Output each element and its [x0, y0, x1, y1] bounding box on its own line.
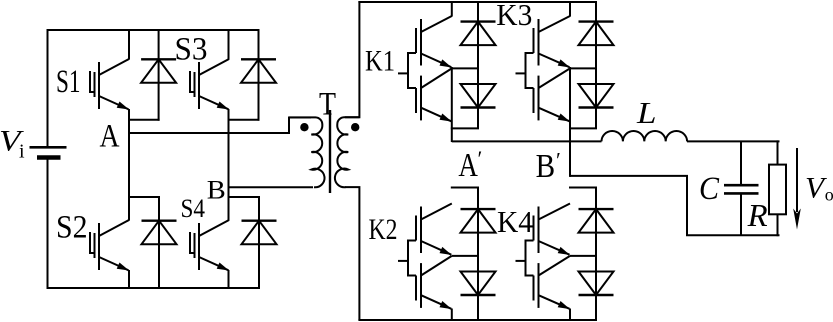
inductor L: [602, 131, 688, 141]
igbt S2: [90, 232, 95, 253]
wire: K1 midnode to diodes: [452, 67, 478, 69]
wire: K2 diode column: [477, 188, 479, 322]
wire: K2 emitter to bottom rail: [451, 309, 453, 322]
wire: K3 diode column: [595, 1, 597, 128]
K3 upper freewheel diode: [579, 20, 614, 22]
svg-text:B: B: [536, 148, 556, 185]
wire: secondary bottom rail: [358, 319, 596, 321]
wire: secondary top lead: [345, 1, 359, 117]
wire: K4 midnode to diodes: [570, 255, 596, 257]
wire: K1 lower emitter: [421, 108, 451, 122]
svg-text:K4: K4: [497, 204, 533, 239]
output voltage arrow Vo: [796, 148, 798, 212]
svg-text:R: R: [747, 197, 768, 233]
wire: S4 emitter to bottom rail: [228, 270, 230, 289]
wire: secondary bottom lead: [345, 187, 359, 320]
K3 gate bracket and lead: [526, 53, 534, 88]
wire: S3 emitter / node B leg: [228, 109, 230, 221]
K2 gate bracket and lead: [408, 241, 416, 276]
wire: K1 leg vertical: [451, 67, 453, 142]
K1 lower IGBT bar: [420, 76, 422, 121]
wire: left vertical to battery +: [47, 29, 49, 146]
wire: K1 upper emitter: [421, 54, 451, 68]
wire: K3 collector to top rail: [569, 1, 571, 17]
wire: K4 upper emitter: [539, 241, 570, 255]
wire: K1 diode column: [477, 1, 479, 128]
svg-text:′: ′: [556, 148, 561, 173]
K1 lower series diode: [461, 106, 496, 108]
svg-text:o: o: [825, 184, 833, 204]
svg-text:K1: K1: [365, 44, 395, 77]
K4 upper IGBT bar: [538, 207, 540, 254]
polarity dot primary: [300, 123, 308, 131]
wire: K4 diode column: [595, 188, 597, 322]
K4 gate bracket and lead: [526, 241, 534, 276]
wire: K3 collector diagonal: [539, 16, 571, 32]
svg-text:S2: S2: [56, 210, 88, 246]
K3 lower IGBT bar: [538, 76, 540, 121]
wire: K2 lower emitter: [421, 295, 451, 309]
wire: node A leg to S2 diode: [128, 196, 160, 198]
wire: K2 lower collector diagonal: [421, 256, 452, 276]
wire: K3 upper emitter: [539, 54, 570, 68]
antiparallel diode of S1: [158, 29, 160, 121]
wire: K2 midnode to diodes: [452, 255, 478, 257]
wire: S3 emitter to diode: [228, 119, 260, 121]
wire: secondary top rail: [358, 1, 596, 3]
wire: primary top rail: [48, 29, 259, 31]
wire: K2 leg to diode column jog: [451, 187, 479, 189]
svg-text:A: A: [100, 118, 120, 154]
capacitor C: [740, 141, 742, 185]
svg-text:S3: S3: [175, 32, 208, 68]
node B wire to transformer: [229, 186, 314, 188]
svg-text:K3: K3: [496, 0, 532, 32]
svg-text:K2: K2: [369, 213, 398, 246]
svg-text:T: T: [319, 87, 336, 123]
svg-text:C: C: [699, 171, 720, 207]
antiparallel diode of S2: [158, 196, 160, 289]
wire: S3 collector to top rail: [228, 29, 230, 60]
K2 upper freewheel diode: [461, 208, 496, 210]
K3 lower series diode: [579, 106, 614, 108]
svg-text:′: ′: [478, 146, 483, 171]
wire: K3 lower collector diagonal: [539, 68, 571, 88]
igbt S3: [190, 71, 195, 92]
wire: battery - to bottom rail: [47, 159, 49, 289]
wire: primary bottom rail: [48, 287, 259, 289]
wire: K4 collector diagonal: [539, 204, 571, 220]
K1 upper IGBT bar: [420, 19, 422, 66]
svg-text:S4: S4: [181, 194, 206, 223]
wire: node B leg to S4 diode: [228, 196, 261, 198]
K2 lower series diode: [461, 294, 496, 296]
K4 upper freewheel diode: [579, 208, 614, 210]
wire: S1 emitter to diode: [128, 119, 160, 121]
wire: K1 collector to top rail: [451, 1, 453, 17]
antiparallel diode of S3: [258, 29, 260, 121]
K4 lower IGBT bar: [538, 263, 540, 308]
K3 upper IGBT bar: [538, 19, 540, 66]
node A wire to transformer: [129, 118, 311, 134]
polarity dot secondary: [351, 123, 359, 131]
wire: K2 upper emitter: [421, 241, 451, 255]
antiparallel diode of S4: [258, 196, 260, 289]
wire: K4 leg to diode column jog: [569, 187, 597, 189]
igbt S4: [190, 232, 195, 253]
resistor R: [777, 140, 779, 164]
igbt S1: [90, 71, 95, 92]
transformer T secondary winding: [335, 117, 359, 187]
svg-text:S1: S1: [56, 64, 81, 100]
transformer T primary winding: [289, 117, 325, 187]
wire: K3 leg vertical (node B prime): [569, 67, 571, 177]
wire: K3 diode column to leg jog: [569, 127, 597, 129]
svg-text:L: L: [636, 95, 657, 130]
K2 upper IGBT bar: [420, 207, 422, 254]
node A' output wire: [452, 140, 602, 142]
wire: K4 lower emitter: [539, 295, 570, 309]
K4 lower series diode: [579, 294, 614, 296]
transformer T core: [329, 110, 331, 193]
K1 upper freewheel diode: [461, 20, 496, 22]
wire: L to load top: [687, 140, 780, 142]
wire: S1 emitter / node A leg: [128, 109, 130, 221]
wire: K4 lower collector diagonal: [539, 256, 571, 276]
wire: K3 midnode to diodes: [570, 67, 596, 69]
wire: S1 collector to top rail: [128, 29, 130, 60]
K1 gate bracket and lead: [408, 53, 416, 88]
node B' output wire: [570, 176, 780, 235]
K2 lower IGBT bar: [420, 263, 422, 308]
wire: K1 collector diagonal: [421, 16, 452, 32]
battery Vi: [30, 146, 67, 149]
svg-text:A: A: [458, 147, 478, 184]
wire: K4 emitter to bottom rail: [569, 309, 571, 322]
wire: K1 lower collector diagonal: [421, 68, 452, 88]
wire: S2 emitter to bottom rail: [128, 270, 130, 289]
svg-text:i: i: [19, 141, 25, 163]
wire: K1 diode column to leg jog: [451, 127, 479, 129]
wire: K3 lower emitter: [539, 108, 570, 122]
svg-text:B: B: [207, 175, 226, 204]
wire: K2 collector diagonal: [421, 204, 452, 220]
